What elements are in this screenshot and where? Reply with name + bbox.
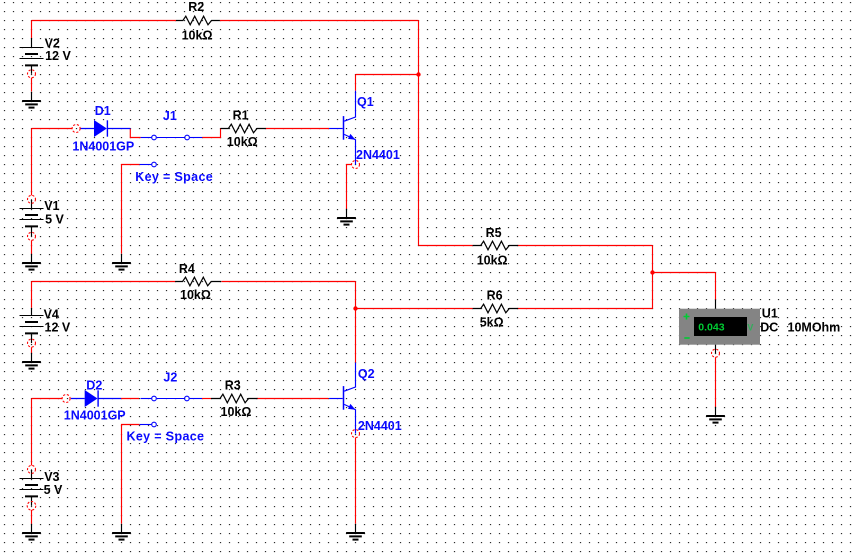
resistor R6 <box>473 304 519 313</box>
wire right column vertical <box>418 21 420 246</box>
svg-text:5 V: 5 V <box>45 212 64 226</box>
svg-text:J2: J2 <box>163 370 177 384</box>
wire D2 to J2 <box>121 398 139 400</box>
wire V1 minus lead <box>31 240 33 254</box>
wire J2 pin3 to ground <box>122 425 140 524</box>
svg-text:10MOhm: 10MOhm <box>788 320 841 334</box>
diode D1 <box>80 120 130 137</box>
wire R6 left to node <box>356 308 473 310</box>
wire V1 plus vertical <box>31 129 33 196</box>
diode D2 <box>71 390 121 407</box>
ground below multimeter <box>706 407 725 423</box>
wire top rail R2 to right column <box>220 20 419 22</box>
ground below Q2 <box>346 524 365 540</box>
battery V4 <box>20 308 44 343</box>
pin circle Q2 emitter pin <box>352 430 360 438</box>
wire Q2 emitter to ground <box>355 438 357 524</box>
resistor R4 <box>175 277 221 286</box>
wire V3 plus vertical <box>31 399 33 466</box>
ground below J2 <box>112 524 131 540</box>
pin circle D1 anode pin <box>72 125 80 133</box>
svg-text:5kΩ: 5kΩ <box>480 315 504 329</box>
ground below Q1 <box>337 209 356 225</box>
svg-text:D1: D1 <box>95 104 111 118</box>
wire V4 minus lead <box>31 347 33 353</box>
wire V3 minus lead <box>31 510 33 524</box>
svg-text:DC: DC <box>760 320 778 334</box>
transistor Q2 <box>329 363 355 434</box>
junction node at x652 <box>650 270 654 274</box>
svg-text:0.043: 0.043 <box>698 322 724 334</box>
svg-text:R2: R2 <box>188 0 204 14</box>
wire R6 right <box>517 308 652 310</box>
wire Q1 collector stub <box>355 75 357 91</box>
svg-text:12 V: 12 V <box>45 321 71 335</box>
pin circle V1 plus pin <box>28 195 36 203</box>
svg-text:10kΩ: 10kΩ <box>221 405 252 419</box>
ground below J1 <box>112 254 131 270</box>
svg-text:D2: D2 <box>86 378 102 392</box>
wire J1 pin3 to ground <box>122 165 140 254</box>
pin circle V3 minus pin <box>27 502 36 511</box>
wire R4 to Q2 column <box>222 281 356 283</box>
svg-text:R3: R3 <box>225 378 241 392</box>
svg-text:2N4401: 2N4401 <box>356 148 400 162</box>
svg-text:12 V: 12 V <box>45 49 71 63</box>
svg-text:10kΩ: 10kΩ <box>477 254 508 268</box>
svg-text:V3: V3 <box>44 470 59 484</box>
resistor R3 <box>211 394 258 403</box>
wire Q1 collector rail <box>356 74 419 76</box>
svg-text:10kΩ: 10kΩ <box>227 135 258 149</box>
wire R1 to Q1 base <box>266 128 329 130</box>
svg-text:V1: V1 <box>44 199 59 213</box>
svg-text:R4: R4 <box>179 262 195 276</box>
transistor Q1 <box>329 91 355 165</box>
svg-text:1N4001GP: 1N4001GP <box>72 139 134 153</box>
wire multimeter minus to ground <box>715 357 717 407</box>
resistor R2 <box>176 16 220 25</box>
wire multimeter plus lead <box>715 273 717 300</box>
wire R5 left <box>419 245 473 247</box>
wire D1 to J1 jog <box>130 129 140 138</box>
wire Q2 collector vertical <box>355 282 357 363</box>
wire bottom rail V4 to R4 <box>32 281 176 283</box>
wire J1 to R1 jog <box>202 129 220 138</box>
pin circle V4 minus pin <box>28 339 36 347</box>
svg-text:R5: R5 <box>486 226 502 240</box>
wire J2 to R3 <box>202 398 211 400</box>
svg-text:Q1: Q1 <box>357 95 374 109</box>
battery V1 <box>20 199 44 236</box>
ground below V3 <box>22 524 41 540</box>
svg-text:1N4001GP: 1N4001GP <box>64 409 126 423</box>
wire top rail V2 to R2 <box>32 20 177 22</box>
svg-text:10kΩ: 10kΩ <box>180 288 211 302</box>
junction node top right <box>416 72 420 76</box>
resistor R1 <box>221 124 266 133</box>
switch J1 <box>140 135 203 167</box>
pin circle V2 minus pin <box>28 70 36 78</box>
pin circle Q1 emitter pin <box>352 161 360 169</box>
pin circle V3 plus pin <box>28 465 36 473</box>
wire V2 plus lead <box>31 21 33 39</box>
wire R3 to Q2 base <box>257 398 329 400</box>
wire V1 to D1 anode <box>32 128 73 130</box>
wire V4 plus lead <box>31 282 33 308</box>
svg-text:R6: R6 <box>487 289 503 303</box>
pin circle D2 anode pin <box>62 395 70 403</box>
ground below V1 <box>22 254 41 270</box>
svg-text:5 V: 5 V <box>44 483 63 497</box>
resistor R5 <box>473 241 519 250</box>
svg-text:V: V <box>747 322 753 332</box>
wire junction to multimeter <box>653 272 716 274</box>
multimeter U1 <box>679 300 760 354</box>
wire vertical at x652 <box>652 246 654 309</box>
svg-text:U1: U1 <box>762 307 778 321</box>
battery V2 <box>20 38 44 74</box>
svg-text:Key = Space: Key = Space <box>135 170 213 184</box>
svg-text:R1: R1 <box>233 108 249 122</box>
svg-text:Q2: Q2 <box>358 367 375 381</box>
wire V3 to D2 anode <box>32 398 63 400</box>
wire Q1 emitter to ground <box>347 165 352 210</box>
junction node at Q2 column <box>353 306 357 310</box>
svg-text:10kΩ: 10kΩ <box>182 29 213 43</box>
wire V2 minus lead <box>31 78 33 92</box>
svg-text:Key = Space: Key = Space <box>127 430 205 444</box>
pin circle V1 minus pin <box>28 232 36 240</box>
wire R5 right <box>517 245 652 247</box>
ground below V4 <box>22 353 41 369</box>
battery V3 <box>20 469 44 505</box>
switch J2 <box>140 396 202 427</box>
svg-text:J1: J1 <box>163 109 177 123</box>
svg-text:2N4401: 2N4401 <box>358 419 402 433</box>
svg-text:V4: V4 <box>44 308 59 322</box>
pin circle U1 minus pin <box>712 349 720 357</box>
ground below V2 <box>22 92 41 108</box>
